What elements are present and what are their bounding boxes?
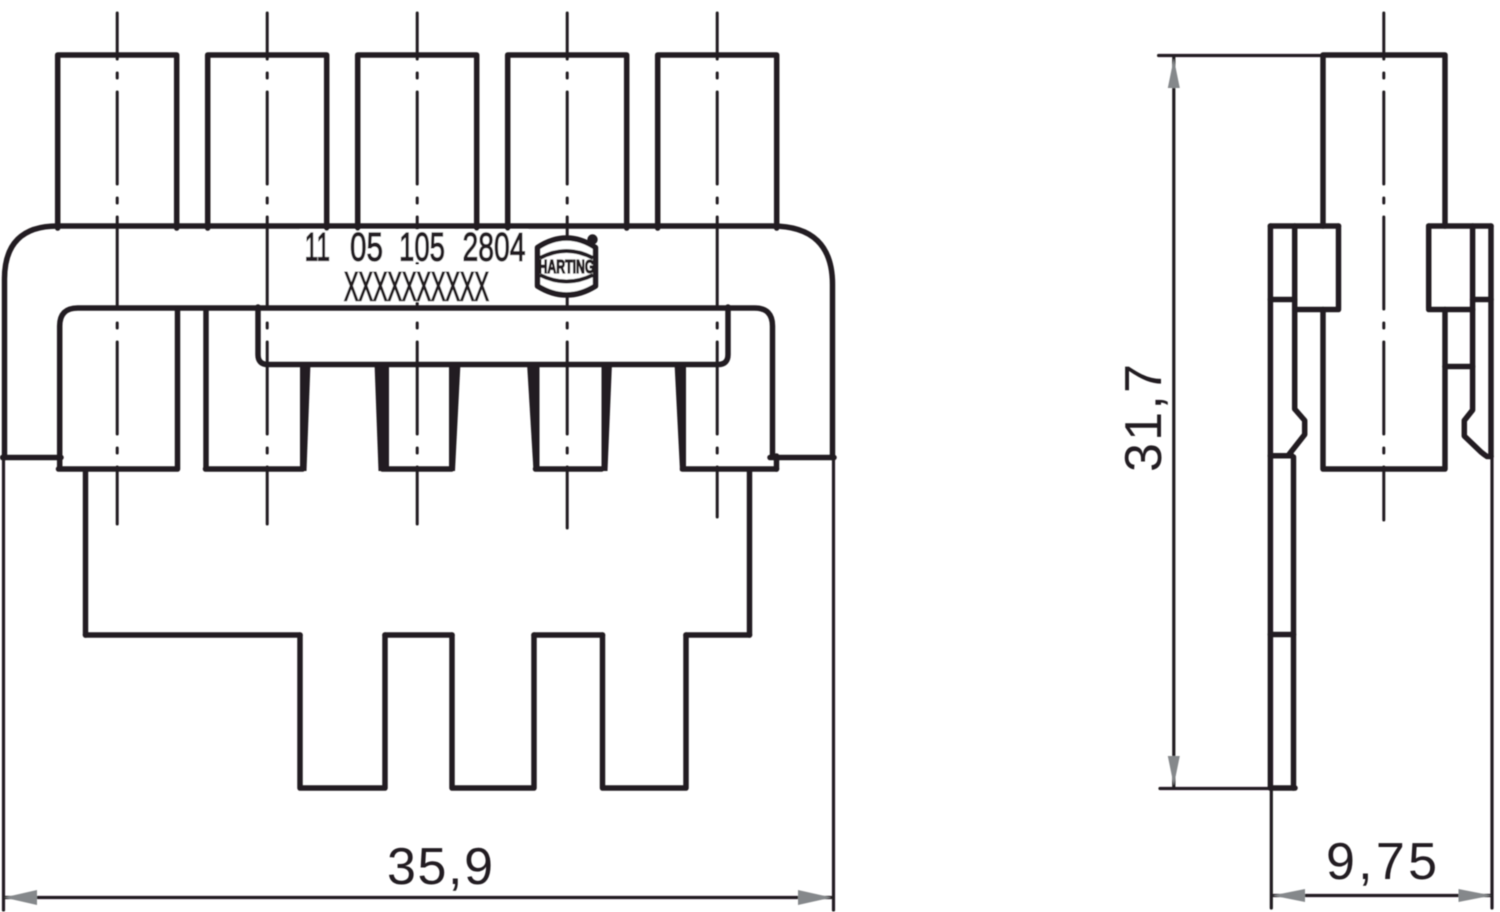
chamber 1 right wall	[175, 309, 181, 468]
foot 1	[300, 635, 385, 788]
side view left leg tick	[1270, 632, 1293, 638]
side view left arm outer edge	[1268, 226, 1274, 788]
side view left guide rect bottom	[1295, 307, 1339, 313]
side view right arm upper tick	[1473, 297, 1491, 303]
foot 2	[452, 635, 534, 788]
chamber 2 left wall	[203, 309, 209, 468]
body bottom ledge left	[3, 455, 62, 461]
centerline pin 2	[266, 13, 269, 524]
centerline pin 1	[116, 13, 119, 524]
chamber 4 bottom	[536, 466, 602, 472]
side view left arm upper tick	[1270, 297, 1294, 303]
dimension 31,7 bottom tick	[1160, 787, 1271, 790]
foot 3	[603, 635, 687, 788]
arrowhead 35,9 left	[4, 890, 37, 905]
svg-text:31,7: 31,7	[1115, 364, 1173, 472]
side view left latch inner profile	[1289, 226, 1305, 455]
arrowhead 35,9 right	[798, 890, 832, 905]
side view right arm outer edge	[1488, 226, 1494, 457]
svg-text:11: 11	[305, 226, 331, 270]
wedge wall chamber 3 left	[375, 363, 390, 471]
lower block right edge	[747, 470, 753, 635]
wedge wall chamber 2 right	[300, 363, 311, 471]
pin 1 front	[58, 55, 177, 228]
side view right bar tick	[1445, 364, 1473, 370]
HARTING logo	[538, 234, 598, 295]
dimension 35,9 extension line left	[2, 460, 5, 910]
dimension 9,75 line	[1274, 894, 1491, 897]
centerline pin 4	[566, 13, 569, 528]
wedge wall chamber 5 left	[675, 363, 687, 471]
centerline pin 3	[416, 13, 419, 524]
dimension 31,7 top tick	[1159, 54, 1320, 57]
pin 2 front	[208, 55, 327, 228]
centerline pin 5	[716, 13, 719, 517]
dimension 35,9 line	[5, 896, 831, 899]
chamber 5 bottom	[683, 466, 777, 472]
side view right guide rect bottom	[1429, 307, 1473, 313]
lower block left edge	[83, 470, 89, 635]
marking bar	[258, 307, 728, 365]
dimension 35,9 extension line right	[832, 460, 835, 910]
collar outline	[60, 308, 773, 469]
side view right latch inner profile	[1464, 226, 1491, 457]
dimension 9,75 extension line left	[1270, 791, 1273, 908]
wedge wall chamber 4 right	[602, 363, 613, 471]
body bottom ledge right	[770, 455, 834, 461]
side view left guide rect right edge	[1336, 226, 1342, 308]
pin 4 front	[508, 55, 627, 228]
dimension 31,7 line	[1172, 57, 1175, 787]
side view left leg inner edge	[1291, 457, 1297, 788]
arrowhead 31,7 top	[1168, 59, 1180, 89]
chamber 3 bottom	[383, 466, 452, 472]
centerline side view pin	[1382, 13, 1385, 520]
lower block bottom edge segments	[86, 632, 750, 638]
side view right arm top edge	[1429, 223, 1491, 229]
svg-text:35,9: 35,9	[387, 838, 493, 896]
arrowhead 9,75 left	[1273, 889, 1306, 902]
chamber 1 bottom	[59, 466, 178, 472]
svg-text:HARTING: HARTING	[539, 257, 595, 277]
chamber 5 corner nub	[774, 456, 780, 469]
dimension 9,75 extension line right	[1490, 457, 1493, 909]
side view left latch bottom tick	[1270, 453, 1292, 459]
side view right guide rect left edge	[1426, 226, 1432, 308]
pin 3 front	[358, 55, 477, 228]
text mask row 2	[340, 265, 492, 303]
chamber 2 bottom	[206, 466, 303, 472]
arrowhead 31,7 bottom	[1168, 756, 1180, 786]
wedge wall chamber 4 left	[527, 363, 540, 471]
body outline front view	[5, 226, 833, 458]
side view pin top part	[1323, 55, 1445, 226]
side view left leg bottom	[1270, 785, 1295, 791]
arrowhead 9,75 right	[1459, 889, 1492, 902]
svg-text:9,75: 9,75	[1326, 833, 1437, 891]
side view pin bottom part	[1323, 310, 1445, 470]
svg-text:XXXXXXXXXX: XXXXXXXXXX	[344, 264, 489, 310]
side view left arm top edge	[1270, 223, 1338, 229]
pin 5 front	[658, 55, 777, 228]
wedge wall chamber 3 right	[449, 363, 461, 471]
text mask row 1	[300, 230, 528, 263]
